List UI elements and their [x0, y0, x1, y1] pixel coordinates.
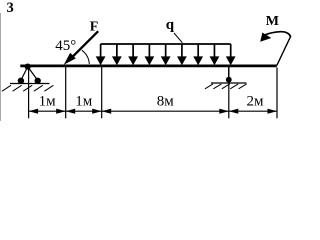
right ground hatch 1: [205, 84, 213, 89]
q load arrow 1: [96, 44, 106, 65]
left support left leg: [21, 67, 28, 81]
left support right leg: [28, 67, 38, 81]
q load arrow 7: [193, 44, 203, 65]
force F arrowhead: [64, 53, 76, 65]
dimension line: [29, 110, 277, 112]
dim arrowhead left of span4: [229, 109, 239, 114]
dimension tick 2: [65, 67, 67, 118]
svg-text:8м: 8м: [157, 93, 175, 109]
dim arrowhead right of span4: [268, 109, 278, 114]
left support roller 2: [35, 78, 41, 84]
svg-text:45°: 45°: [55, 38, 76, 54]
svg-text:1м: 1м: [39, 93, 57, 109]
distributed load line q: [101, 43, 231, 45]
q load arrow 4: [144, 44, 154, 65]
beam: [20, 65, 277, 68]
right ground hatch 4: [230, 84, 238, 89]
dim arrowhead left of span1: [29, 109, 38, 114]
force F arrow line: [71, 31, 99, 59]
right support ground line: [211, 82, 247, 84]
q load arrow 3: [128, 44, 138, 65]
q pointer line: [174, 33, 182, 43]
svg-text:2м: 2м: [247, 93, 265, 109]
left page border: [0, 13, 2, 121]
right ground hatch 2: [213, 84, 221, 89]
left ground hatch 2: [13, 85, 22, 91]
moment M lever line: [277, 36, 291, 65]
svg-text:1м: 1м: [75, 93, 93, 109]
left ground hatch 3: [23, 85, 32, 91]
left support pin: [25, 64, 31, 70]
moment M arrowhead: [260, 33, 271, 42]
left ground hatch 5: [44, 85, 53, 91]
left support ground line: [10, 83, 50, 85]
dim arrowhead right of span2: [92, 109, 102, 114]
right ground hatch 5: [239, 84, 247, 89]
dim arrowhead left of span2: [66, 109, 76, 114]
dimension tick 1: [28, 69, 30, 118]
dimension tick 5: [276, 68, 278, 119]
angle 45 arc: [82, 50, 90, 64]
moment M arc: [265, 32, 291, 37]
left ground hatch 1: [2, 85, 11, 91]
dim arrowhead left of span3: [102, 109, 112, 114]
svg-text:M: M: [266, 14, 279, 29]
dim arrowhead right of span1: [56, 109, 65, 114]
svg-text:3: 3: [7, 0, 14, 16]
right ground hatch 3: [222, 84, 230, 89]
dimension tick 4: [228, 66, 230, 118]
left ground hatch 4: [34, 85, 43, 91]
dim arrowhead right of span3: [219, 109, 229, 114]
q load arrow 8: [210, 44, 220, 65]
dimension tick 3: [101, 67, 103, 118]
left support roller 1: [18, 78, 24, 84]
q load arrow 9: [226, 44, 236, 65]
svg-text:F: F: [90, 20, 99, 35]
right support link: [228, 66, 230, 78]
right support pin: [226, 77, 232, 83]
q load arrow 6: [177, 44, 187, 65]
q load arrow 2: [112, 44, 122, 65]
svg-text:q: q: [166, 17, 175, 33]
q load arrow 5: [161, 44, 171, 65]
